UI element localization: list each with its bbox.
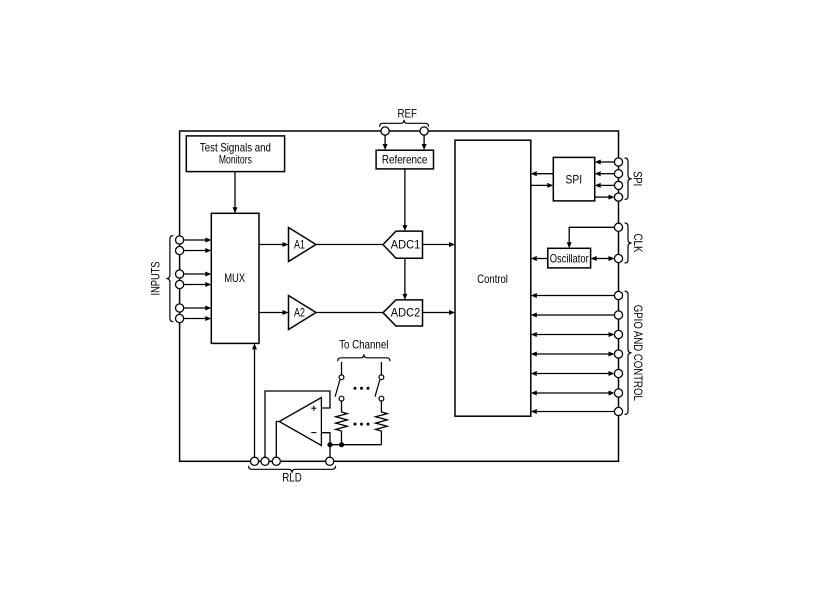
wire: GPIO pin 2 to Control: [531, 313, 615, 318]
wire: MUX to A2: [259, 310, 289, 315]
wire: Test Signals to MUX: [233, 172, 238, 214]
resistor R2: [376, 412, 388, 445]
svg-text:ADC2: ADC2: [391, 306, 421, 320]
svg-text:ADC1: ADC1: [391, 238, 421, 252]
wire: RLD pin to MUX: [252, 343, 257, 457]
svg-text:Control: Control: [477, 272, 508, 286]
svg-text:SPI: SPI: [631, 171, 645, 186]
INPUTS brace: [166, 236, 173, 322]
amplifier A1: [289, 228, 317, 262]
ADC2 block: [383, 300, 423, 326]
svg-text:RLD: RLD: [282, 471, 302, 485]
svg-text:To Channel: To Channel: [339, 337, 388, 351]
switch S1: [335, 362, 344, 412]
wire: GPIO pin 7 to Control: [531, 409, 615, 414]
wire: SPI pin1 to SPI: [595, 160, 615, 165]
REF pin circles: [381, 127, 428, 135]
wire: MUX to A1: [259, 242, 289, 247]
svg-text:SPI: SPI: [566, 172, 583, 186]
label SPI: [631, 171, 645, 186]
svg-text:A1: A1: [294, 238, 305, 252]
REF brace: [380, 120, 429, 127]
RLD pin circles: [250, 457, 333, 465]
wire: REF pin2 to Reference: [422, 135, 427, 150]
block: MUX: [211, 213, 259, 343]
svg-text:Oscillator: Oscillator: [550, 252, 589, 266]
wire: A2 to ADC2: [316, 312, 383, 314]
wire: GPIO pin 3 to Control: [531, 332, 615, 337]
block: Reference: [376, 150, 433, 169]
block: Control: [455, 140, 531, 416]
wire: GPIO pin 5 to Control: [531, 371, 615, 376]
ADC1 block: [383, 231, 423, 258]
RLD brace: [249, 466, 336, 473]
junction dot A: [327, 442, 332, 447]
label GPIO AND CONTROL: [631, 305, 645, 401]
GPIO brace: [625, 291, 632, 414]
wire: GPIO pin 4 to Control: [531, 352, 615, 357]
label REF: [397, 107, 417, 121]
block: Oscillator: [548, 248, 591, 268]
block: SPI: [553, 157, 594, 201]
wire: GPIO pin 1 to Control: [531, 293, 615, 298]
SPI brace: [625, 158, 632, 200]
switch S2: [375, 362, 384, 412]
wire: SPI to SPI pin4: [595, 195, 615, 200]
GPIO pin circles: [614, 291, 622, 415]
wire: SPI to Control: [531, 171, 554, 176]
wire: resistor bottom rail: [330, 444, 381, 446]
label INPUTS: [149, 262, 163, 296]
wire: op-amp output to RLD pin: [276, 422, 280, 458]
wire: REF pin1 to Reference: [383, 135, 388, 150]
SPI pin circles: [614, 158, 622, 201]
input pin circles: [176, 236, 184, 323]
resistor R1: [336, 412, 348, 445]
CLK pin circles: [614, 223, 622, 262]
wire: op-amp feedback loop: [265, 391, 330, 457]
label RLD: [282, 471, 302, 485]
CLK brace: [625, 223, 632, 263]
To Channel brace: [338, 354, 390, 361]
wire: inverting input to RLD pin: [321, 433, 330, 458]
wire: A1 to ADC1: [316, 244, 383, 246]
label CLK: [631, 234, 645, 253]
svg-text:A2: A2: [294, 306, 305, 320]
wire: CLK pin to Oscillator: [567, 227, 615, 248]
amplifier A2: [289, 296, 317, 330]
svg-text:MUX: MUX: [224, 271, 245, 285]
wire: GPIO pin 6 to Control: [531, 391, 615, 396]
wire: SPI pin3 to SPI: [595, 183, 615, 188]
wire: Oscillator to CLK pin: [591, 256, 615, 261]
chip boundary: [180, 131, 619, 461]
label To Channel: [339, 337, 388, 351]
svg-text:INPUTS: INPUTS: [149, 262, 163, 296]
svg-text:GPIO AND CONTROL: GPIO AND CONTROL: [631, 305, 645, 401]
op-amp U1: [279, 398, 321, 446]
wire: ADC1 to ADC2: [402, 258, 407, 300]
block: Test Signals and Monitors: [186, 136, 284, 172]
wire: ADC2 to Control: [423, 310, 456, 315]
wire: Oscillator to Control: [531, 256, 548, 261]
svg-text:Monitors: Monitors: [219, 153, 252, 167]
wire: SPI pin2 to SPI: [595, 171, 615, 176]
wire: Control to SPI: [531, 183, 554, 188]
wire: Reference to ADC1: [402, 169, 407, 231]
ellipsis between switches: [354, 387, 370, 390]
svg-text:Reference: Reference: [382, 152, 428, 166]
wires: input pins to MUX: [184, 238, 212, 322]
wire: ADC1 to Control: [423, 242, 456, 247]
svg-text:REF: REF: [397, 107, 417, 121]
junction dot B: [339, 442, 344, 447]
ellipsis between resistors: [354, 423, 370, 426]
svg-text:CLK: CLK: [631, 234, 645, 253]
